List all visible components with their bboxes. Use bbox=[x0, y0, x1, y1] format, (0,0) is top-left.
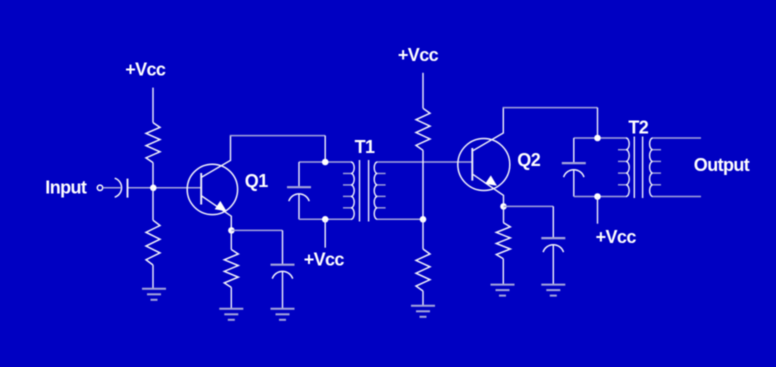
label +Vcc (R4 top) bbox=[398, 45, 439, 65]
wire down to C5 bbox=[552, 206, 554, 238]
wire C2 to ground bbox=[282, 272, 284, 309]
wire node A to R2 bbox=[152, 188, 154, 220]
wire T1 secondary bottom to node E bbox=[377, 218, 423, 220]
label Input bbox=[45, 178, 87, 198]
wire output bottom bbox=[653, 196, 701, 198]
resistor R4 bbox=[416, 108, 430, 150]
wire +Vcc to R1 bbox=[152, 88, 154, 123]
transistor Q1 circle bbox=[187, 164, 237, 214]
wire +Vcc to R4 bbox=[422, 73, 424, 109]
wire R2 to ground bbox=[152, 265, 154, 288]
resistor R5 bbox=[416, 249, 430, 291]
node C (tank1 top) bbox=[322, 159, 329, 166]
wire tank1 bottom bbox=[299, 218, 351, 220]
wire tank1 top bbox=[299, 161, 351, 163]
label +Vcc (tank1) bbox=[304, 250, 345, 270]
transistor Q2 circle bbox=[458, 139, 510, 191]
wire tank1 cap left top bbox=[298, 162, 300, 186]
wire rail down to tank1 top bbox=[324, 136, 326, 162]
resistor R2 bbox=[146, 220, 160, 265]
wire node B to C2 bbox=[231, 229, 282, 231]
Q2 emitter arrow bbox=[485, 175, 497, 185]
Q2 emitter lead bbox=[473, 174, 504, 206]
wire C1 to node A bbox=[129, 187, 152, 189]
svg-text:+Vcc: +Vcc bbox=[125, 60, 166, 80]
wire R6 to ground bbox=[502, 259, 504, 284]
Q1 emitter lead bbox=[202, 196, 232, 230]
wire input terminal to C1 bbox=[103, 187, 121, 189]
wire node A to Q1 base bbox=[157, 187, 202, 189]
node D (tank1 bottom) bbox=[322, 216, 329, 223]
wire R3 to ground bbox=[230, 287, 232, 308]
wire Q2 collector rail bbox=[503, 107, 598, 109]
Q2 base bar bbox=[471, 148, 473, 181]
ground (R6) bbox=[491, 285, 515, 296]
wire T1 secondary top to Q2 base bbox=[377, 161, 472, 163]
node F (Q2 emitter junction) bbox=[500, 203, 507, 210]
wire tank1 cap left bottom bbox=[298, 194, 300, 219]
transformer T2 primary winding bbox=[618, 138, 629, 196]
ground (R2) bbox=[142, 289, 166, 300]
T1 core bbox=[360, 160, 369, 222]
Q1 base bar bbox=[200, 173, 202, 205]
label T1 bbox=[355, 137, 375, 157]
svg-text:T2: T2 bbox=[628, 118, 648, 138]
transformer T1 primary winding bbox=[343, 162, 354, 219]
capacitor C3 (tank 1) bbox=[287, 187, 311, 201]
svg-text:Q2: Q2 bbox=[517, 150, 540, 170]
wire down to C2 bbox=[282, 230, 284, 264]
node E (bias/secondary junction) bbox=[420, 216, 427, 223]
ground (R3) bbox=[219, 309, 243, 320]
label +Vcc (R1 top) bbox=[125, 60, 166, 80]
svg-text:Input: Input bbox=[45, 178, 87, 198]
capacitor C2 (emitter bypass) bbox=[271, 265, 295, 279]
resistor R6 (Q2 emitter) bbox=[496, 223, 510, 259]
wire tank2 bottom bbox=[574, 196, 626, 198]
wire node F to R6 bbox=[503, 206, 505, 222]
resistor R1 bbox=[146, 123, 160, 163]
label Q1 bbox=[245, 171, 268, 191]
wire node H to +Vcc bbox=[597, 197, 599, 224]
svg-text:+Vcc: +Vcc bbox=[596, 227, 637, 247]
capacitor C1 (input coupling) bbox=[115, 178, 128, 197]
wire R4 crossing to node E bbox=[422, 150, 424, 219]
wire Q1 collector rail bbox=[230, 135, 325, 137]
wire tank2 top bbox=[574, 137, 626, 139]
node A (junction dot) bbox=[150, 185, 157, 192]
wire R1 to node A bbox=[152, 163, 154, 188]
label +Vcc (tank2) bbox=[596, 227, 637, 247]
node B (emitter junction) bbox=[228, 227, 235, 234]
wire output top bbox=[653, 137, 701, 139]
ground (C2) bbox=[271, 309, 295, 320]
svg-text:T1: T1 bbox=[355, 137, 375, 157]
T2 core bbox=[634, 137, 642, 199]
svg-text:Q1: Q1 bbox=[245, 171, 268, 191]
transformer T1 secondary winding bbox=[374, 162, 385, 219]
transformer T2 secondary winding bbox=[650, 138, 661, 196]
wire C5 to ground bbox=[552, 245, 554, 284]
wire node E to R5 bbox=[422, 219, 424, 249]
wire tank2 cap left top bbox=[573, 138, 575, 162]
Q1 emitter arrow bbox=[215, 201, 227, 211]
label Output bbox=[694, 155, 750, 175]
Q2 collector lead bbox=[473, 108, 503, 151]
capacitor C4 (tank 2) bbox=[562, 163, 586, 177]
svg-text:+Vcc: +Vcc bbox=[398, 45, 439, 65]
label T2 bbox=[628, 118, 648, 138]
Q1 collector lead bbox=[202, 136, 231, 178]
ground (R5) bbox=[411, 306, 435, 317]
wire tank2 cap left bottom bbox=[573, 170, 575, 197]
svg-text:Output: Output bbox=[694, 155, 750, 175]
svg-text:+Vcc: +Vcc bbox=[304, 250, 345, 270]
input terminal bbox=[97, 185, 102, 190]
wire rail down to tank2 top bbox=[597, 108, 599, 138]
resistor R3 (Q1 emitter) bbox=[224, 250, 238, 288]
node G (tank2 top) bbox=[594, 135, 601, 142]
label Q2 bbox=[517, 150, 540, 170]
ground (C5) bbox=[541, 285, 565, 296]
wire node B to R3 bbox=[230, 230, 232, 249]
capacitor C5 (Q2 emitter bypass) bbox=[541, 238, 565, 252]
wire node D to +Vcc bbox=[324, 219, 326, 247]
wire node F to C5 bbox=[504, 205, 554, 207]
node H (tank2 bottom) bbox=[594, 193, 601, 200]
wire R5 to ground bbox=[422, 291, 424, 305]
